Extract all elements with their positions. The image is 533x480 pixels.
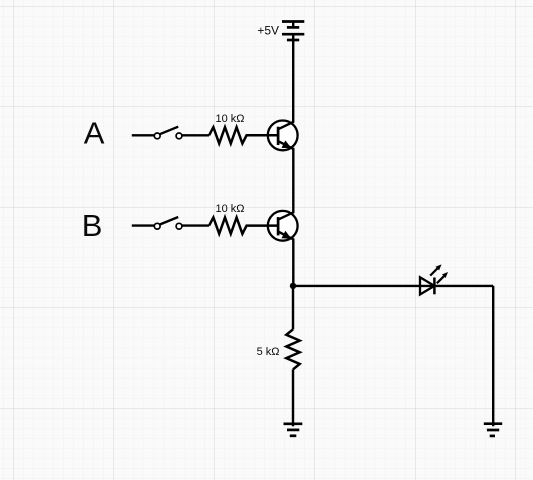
svg-text:5 kΩ: 5 kΩ [257,346,280,358]
svg-text:10 kΩ: 10 kΩ [215,203,244,215]
svg-text:+5V: +5V [257,24,279,38]
svg-text:10 kΩ: 10 kΩ [215,113,244,125]
svg-text:A: A [84,116,105,151]
svg-text:B: B [82,208,103,243]
